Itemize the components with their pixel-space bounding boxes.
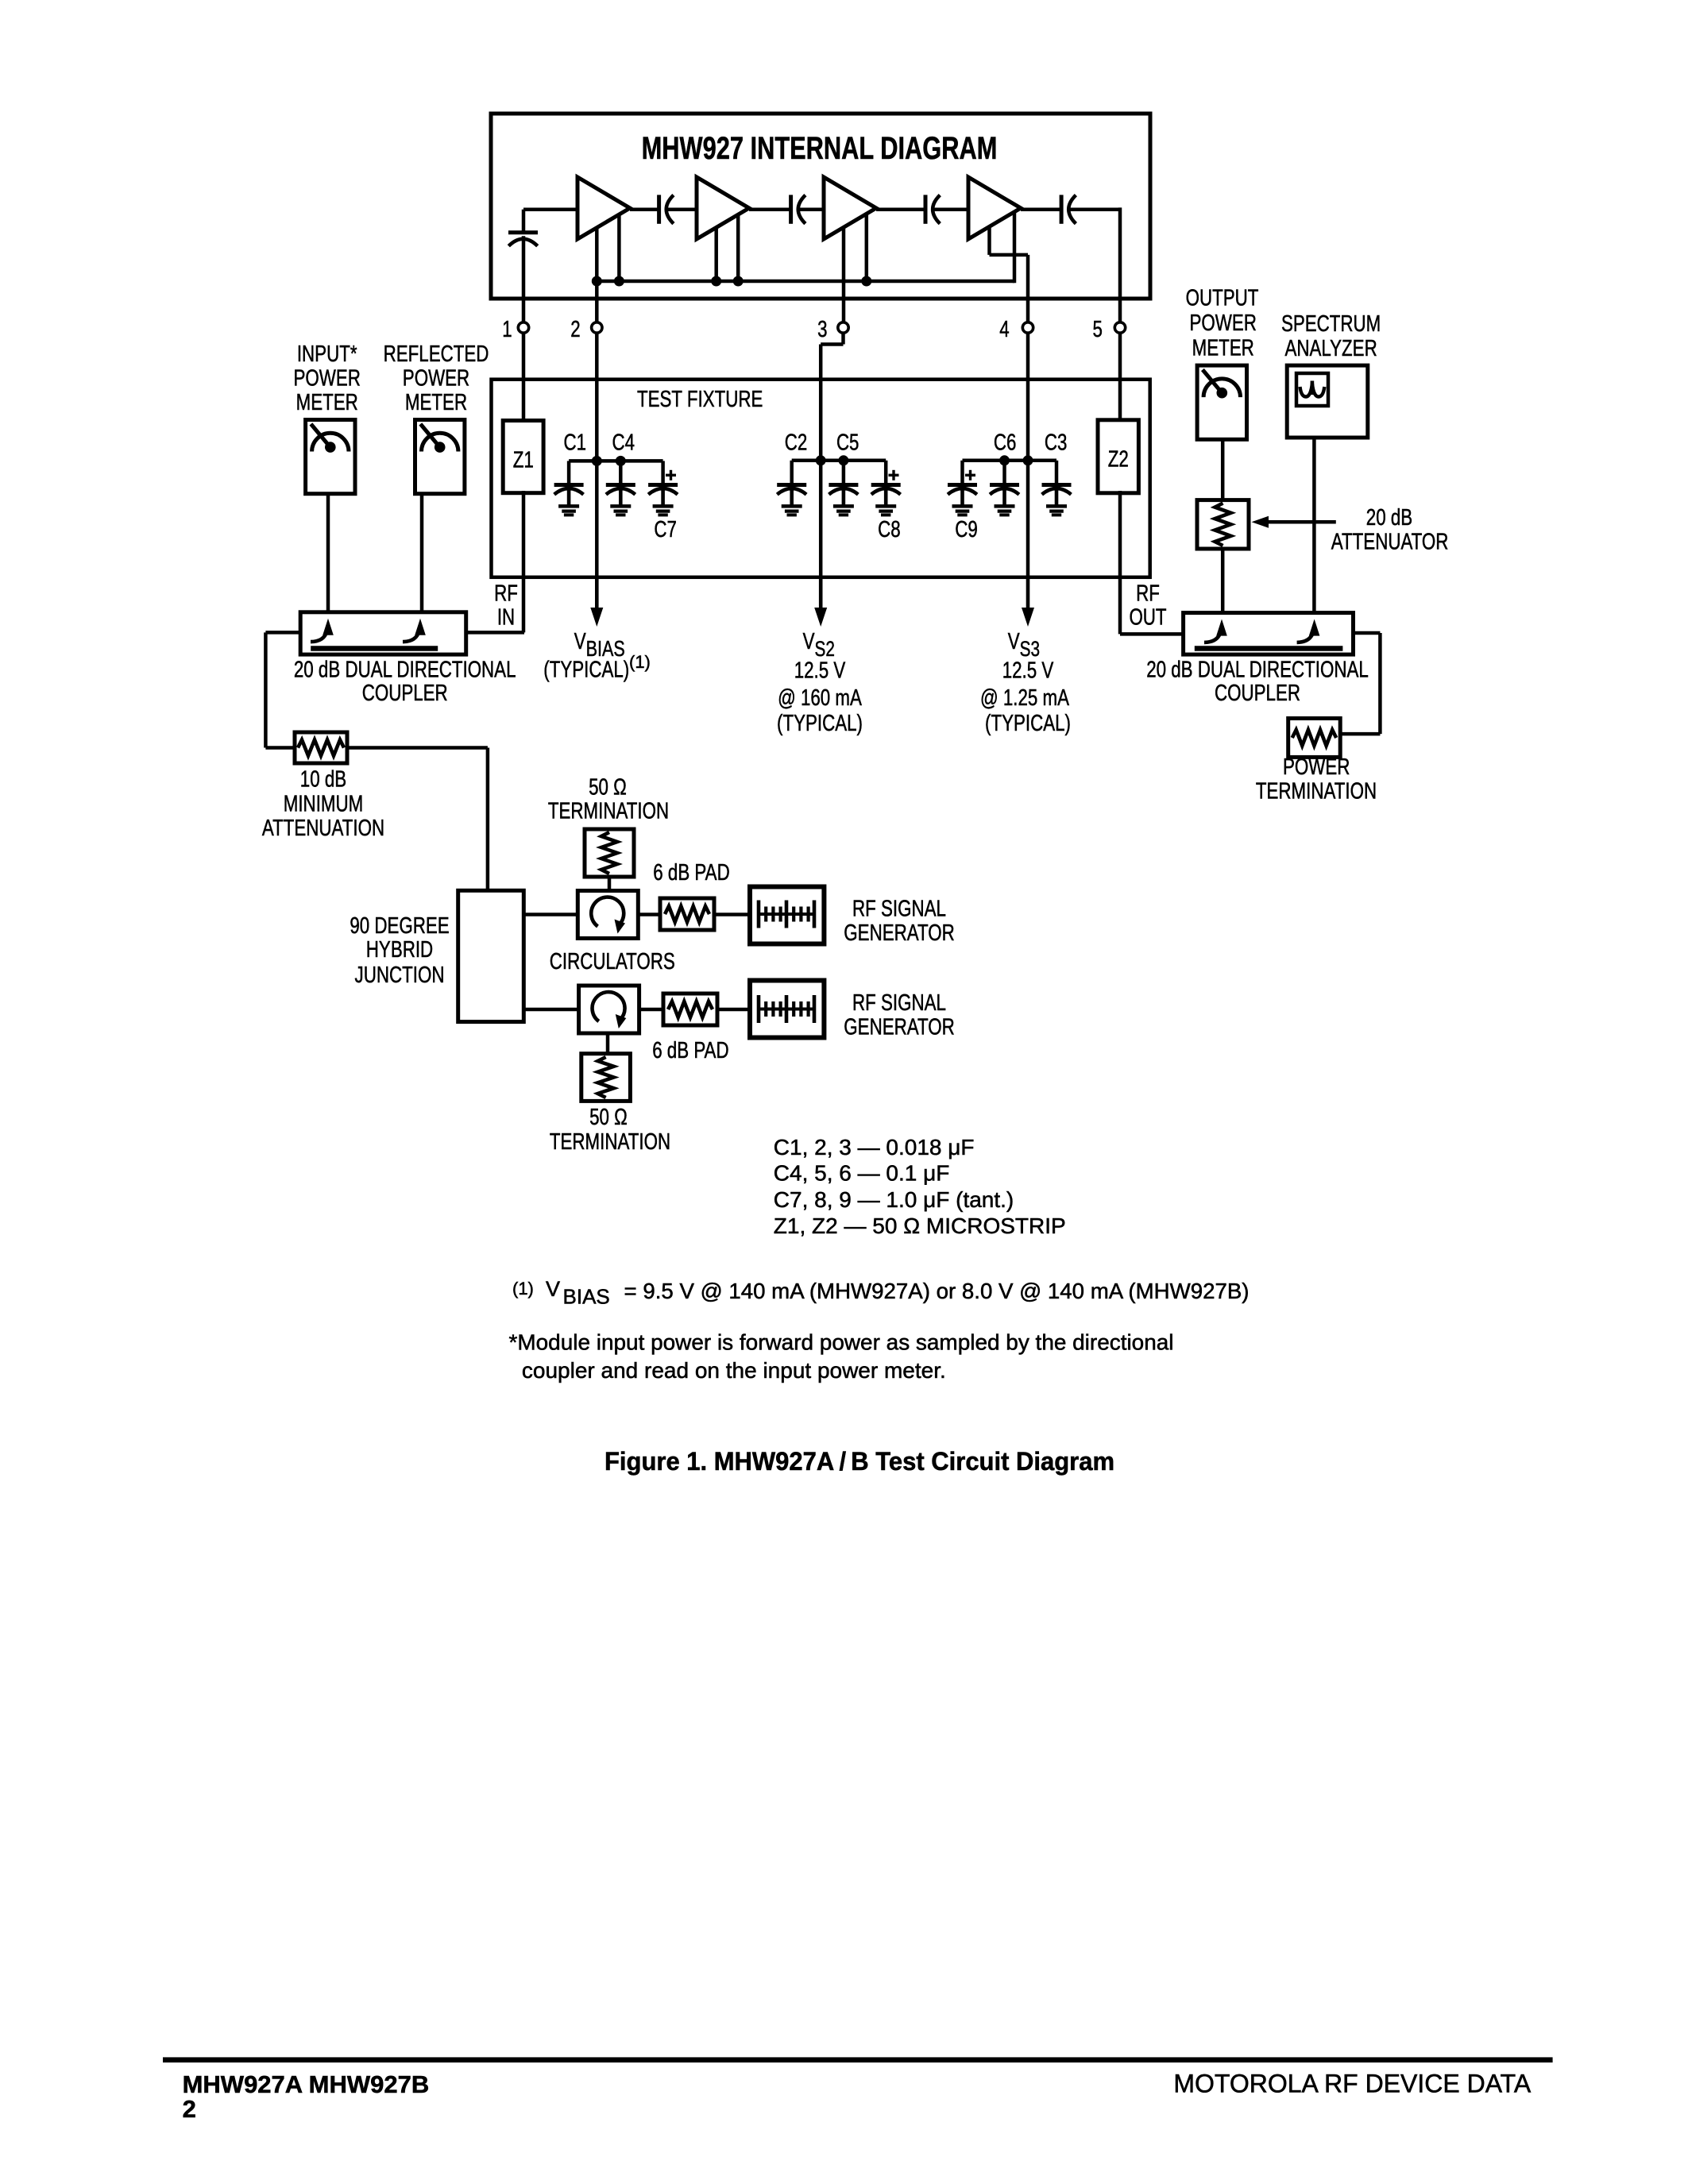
wire coupler to power termination <box>1354 631 1381 635</box>
svg-text:GENERATOR: GENERATOR <box>844 920 954 946</box>
ground for C5 <box>833 504 854 508</box>
svg-text:C4, 5, 6 — 0.1 μF: C4, 5, 6 — 0.1 μF <box>774 1161 950 1186</box>
wire output cap to pin 5 corner <box>1069 207 1120 211</box>
svg-text:4: 4 <box>999 317 1009 342</box>
reflected power meter needle icon <box>422 433 458 451</box>
svg-text:C5: C5 <box>836 430 859 456</box>
coupler pickup arrow 1 <box>323 619 334 635</box>
amplifier stage A1 <box>577 177 630 239</box>
svg-text:TEST FIXTURE: TEST FIXTURE <box>637 387 763 412</box>
wire attenuator to coupler <box>1221 549 1225 613</box>
wire to A4 <box>933 207 968 211</box>
wire rail 2 (pin3 group) <box>792 459 886 463</box>
wire A1 second leg <box>617 214 621 281</box>
wire A4 out <box>1021 207 1061 211</box>
wire pin2 to Vbias <box>595 333 599 461</box>
wire attenuator to hybrid <box>347 746 488 750</box>
svg-text:3: 3 <box>817 317 827 342</box>
coupler pickup arrow 2 <box>415 619 426 635</box>
svg-text:MHW927 INTERNAL DIAGRAM: MHW927 INTERNAL DIAGRAM <box>642 131 998 166</box>
ground for C7 <box>653 504 674 508</box>
svg-text:COUPLER: COUPLER <box>362 681 448 706</box>
test fixture box <box>492 380 1150 577</box>
svg-text:C8: C8 <box>878 517 901 542</box>
svg-text:12.5 V: 12.5 V <box>1002 658 1054 684</box>
resistor zigzag 10dB <box>298 740 344 756</box>
svg-text:Z1, Z2 — 50 Ω MICROSTRIP: Z1, Z2 — 50 Ω MICROSTRIP <box>774 1214 1066 1238</box>
resistor zigzag pad2 <box>668 1001 713 1017</box>
50 ohm termination resistor (bottom) <box>581 1054 631 1102</box>
wire pin4 through fixture <box>1026 461 1030 577</box>
input power meter box <box>306 420 355 494</box>
resistor zigzag term1 <box>601 832 617 874</box>
wire pin1 stem <box>522 236 526 322</box>
resistor zigzag pterm <box>1292 730 1337 746</box>
10 dB minimum attenuation resistor <box>295 732 347 763</box>
svg-text:coupler and read on the input: coupler and read on the input power mete… <box>522 1358 946 1383</box>
svg-text:IN: IN <box>497 605 515 631</box>
svg-text:ATTENUATOR: ATTENUATOR <box>1331 530 1449 555</box>
ground for C2 <box>782 504 802 508</box>
coupler mainline <box>311 646 438 651</box>
svg-text:C7, 8, 9 — 1.0 μF (tant.): C7, 8, 9 — 1.0 μF (tant.) <box>774 1187 1014 1212</box>
svg-text:S2: S2 <box>815 637 835 661</box>
capacitor C5 <box>829 483 858 487</box>
ground for C1 <box>558 504 579 508</box>
svg-text:RF SIGNAL: RF SIGNAL <box>852 897 946 922</box>
svg-text:C4: C4 <box>612 430 635 456</box>
svg-text:6 dB PAD: 6 dB PAD <box>652 1038 728 1063</box>
wire A1 bias leg <box>595 228 599 281</box>
svg-text:C7: C7 <box>654 517 677 542</box>
capacitor C1 <box>554 483 584 487</box>
svg-text:MINIMUM: MINIMUM <box>284 791 364 816</box>
output coupler mainline <box>1195 646 1343 651</box>
svg-text:50 Ω: 50 Ω <box>589 774 627 800</box>
capacitor C2 <box>777 483 806 487</box>
svg-text:METER: METER <box>405 390 467 415</box>
wire to A2 <box>667 207 697 211</box>
svg-text:TERMINATION: TERMINATION <box>550 1129 670 1155</box>
svg-text:2: 2 <box>570 317 580 342</box>
svg-text:(1): (1) <box>629 652 651 672</box>
output power meter needle icon <box>1203 379 1240 397</box>
wire circulator 2 to termination 2 <box>606 1033 610 1054</box>
wire hybrid to circulator 2 <box>523 1008 578 1012</box>
20 dB dual directional coupler (output) <box>1184 613 1354 655</box>
pin 1 <box>518 322 528 333</box>
wire A3 out <box>876 207 925 211</box>
svg-text:Z1: Z1 <box>513 448 534 473</box>
svg-text:TERMINATION: TERMINATION <box>1256 778 1377 804</box>
wire coupler to RF IN <box>466 631 524 635</box>
wire pin2 drop <box>595 281 599 322</box>
pin 3 <box>838 322 848 333</box>
svg-text:20 dB DUAL DIRECTIONAL: 20 dB DUAL DIRECTIONAL <box>294 658 516 683</box>
microstrip Z1 <box>503 421 543 493</box>
svg-text:HYBRID: HYBRID <box>366 937 433 963</box>
wire input meter to coupler <box>326 494 330 612</box>
wire pin5 to Z2 <box>1118 333 1122 421</box>
svg-text:V: V <box>803 629 815 654</box>
power termination resistor <box>1288 719 1341 758</box>
svg-text:2: 2 <box>183 2095 196 2123</box>
wire pad1 to generator 1 <box>714 913 750 916</box>
footer rule <box>163 2057 1553 2062</box>
svg-text:C1: C1 <box>564 430 587 456</box>
svg-text:S3: S3 <box>1020 637 1040 661</box>
output coupler pickup arrow 1 <box>1216 619 1227 636</box>
svg-text:OUT: OUT <box>1129 605 1166 631</box>
svg-text:COUPLER: COUPLER <box>1215 681 1300 706</box>
50 ohm termination resistor (top) <box>585 829 634 877</box>
wire pad2 to generator 2 <box>717 1008 750 1012</box>
ground for C3 <box>1046 504 1067 508</box>
capacitor C6 <box>990 483 1019 487</box>
ground for C6 <box>995 504 1015 508</box>
wire RF OUT to coupler <box>1118 491 1122 634</box>
coupling capacitor CC <box>924 195 928 223</box>
wire OPM to attenuator <box>1221 438 1225 500</box>
wire pin5 drop <box>1118 207 1122 322</box>
wire circulator1 to pad1 <box>638 913 660 916</box>
wire input line pin1 to A1 <box>523 207 577 211</box>
svg-text:V: V <box>546 1277 560 1301</box>
input power meter needle icon <box>312 433 349 451</box>
svg-text:CIRCULATORS: CIRCULATORS <box>550 949 675 974</box>
wire A4 leg step <box>987 226 991 255</box>
plus sign C7 <box>666 474 676 477</box>
svg-text:@ 160 mA: @ 160 mA <box>778 685 862 711</box>
svg-text:GENERATOR: GENERATOR <box>844 1015 954 1040</box>
wire coupler left to attenuator <box>265 631 300 635</box>
wire A3 leg2 <box>865 214 869 281</box>
svg-text:INPUT*: INPUT* <box>297 341 357 367</box>
capacitor C9 <box>948 483 977 487</box>
svg-text:90 DEGREE: 90 DEGREE <box>350 913 449 939</box>
svg-text:REFLECTED: REFLECTED <box>384 341 489 367</box>
svg-text:MHW927A MHW927B: MHW927A MHW927B <box>183 2070 430 2098</box>
coupling capacitor CB <box>789 195 793 223</box>
capacitor C8 <box>871 483 901 487</box>
resistor zigzag term2 <box>598 1057 614 1098</box>
Vbias arrow <box>595 577 599 609</box>
svg-text:C3: C3 <box>1045 430 1068 456</box>
wire circulator2 to pad2 <box>639 1008 663 1012</box>
input capacitor (pin 1 shunt) <box>522 210 526 233</box>
svg-text:1: 1 <box>502 317 512 342</box>
svg-text:TERMINATION: TERMINATION <box>548 799 669 824</box>
circulator 1 <box>577 891 638 939</box>
wire to A3 <box>799 207 825 211</box>
microstrip Z2 <box>1098 420 1138 493</box>
wire rail 3 (pin4 group) <box>963 459 1057 463</box>
svg-text:C6: C6 <box>994 430 1017 456</box>
svg-text:POWER: POWER <box>294 366 361 392</box>
amplifier stage A2 <box>697 177 749 239</box>
svg-text:= 9.5 V @ 140 mA (MHW927A) or: = 9.5 V @ 140 mA (MHW927A) or 8.0 V @ 14… <box>624 1279 1250 1303</box>
amplifier stage A3 <box>824 177 876 239</box>
svg-text:5: 5 <box>1093 317 1103 342</box>
VS3 arrow <box>1026 577 1030 609</box>
svg-text:C1, 2, 3 — 0.018 μF: C1, 2, 3 — 0.018 μF <box>774 1135 975 1160</box>
circulator 2 <box>579 986 639 1033</box>
svg-text:C9: C9 <box>955 517 978 542</box>
VS2 arrow <box>819 577 823 609</box>
svg-text:POWER: POWER <box>1283 754 1350 780</box>
wire pin2 through fixture <box>595 461 599 577</box>
20 dB dual directional coupler (input) <box>300 612 466 654</box>
attenuator pointer arrow <box>1266 520 1336 524</box>
wire termination to circulator 1 <box>608 877 612 891</box>
plus sign C8 <box>889 474 899 477</box>
capacitor C7 <box>648 483 678 487</box>
20 dB attenuator box <box>1197 500 1249 549</box>
svg-text:RF: RF <box>494 581 518 607</box>
svg-text:(TYPICAL): (TYPICAL) <box>543 658 629 683</box>
coupling capacitor CA <box>657 195 661 223</box>
wire internal bias bus <box>597 280 1014 284</box>
output coupler pickup arrow 2 <box>1309 619 1320 636</box>
svg-text:Z2: Z2 <box>1108 447 1129 473</box>
wire pin1 to Z1 <box>522 333 526 422</box>
RF signal generator 2 <box>750 981 824 1038</box>
wire A4 output leg to bus <box>1013 212 1017 284</box>
svg-text:METER: METER <box>296 390 358 415</box>
wire A2 leg2 <box>736 214 740 281</box>
svg-text:12.5 V: 12.5 V <box>794 658 846 684</box>
ground for C9 <box>952 504 973 508</box>
svg-text:POWER: POWER <box>403 366 469 392</box>
svg-text:C2: C2 <box>785 430 808 456</box>
output power meter box <box>1197 365 1246 439</box>
MHW927 internal diagram box <box>491 114 1150 299</box>
svg-text:V: V <box>1008 629 1020 654</box>
svg-text:@ 1.25 mA: @ 1.25 mA <box>980 685 1070 711</box>
wire A2 out <box>749 207 791 211</box>
wire pin4 drop <box>1026 255 1030 322</box>
svg-text:RF: RF <box>1136 581 1160 607</box>
svg-text:20 dB: 20 dB <box>1366 505 1412 531</box>
svg-text:ANALYZER: ANALYZER <box>1285 336 1377 361</box>
svg-text:JUNCTION: JUNCTION <box>355 963 445 988</box>
svg-text:6 dB PAD: 6 dB PAD <box>653 860 729 886</box>
coupling capacitor CD <box>1060 195 1064 223</box>
pin 5 <box>1114 322 1125 333</box>
wire reflected meter to coupler <box>420 494 424 612</box>
svg-text:MOTOROLA RF DEVICE DATA: MOTOROLA RF DEVICE DATA <box>1173 2070 1532 2098</box>
svg-text:*Module input power is forward: *Module input power is forward power as … <box>509 1330 1174 1355</box>
amplifier stage A4 <box>968 177 1021 239</box>
pin 2 <box>592 322 602 333</box>
resistor zigzag pad1 <box>665 906 709 922</box>
90 degree hybrid junction box <box>458 890 524 1021</box>
capacitor C4 <box>606 483 635 487</box>
wire rail 1 (pin2 group) <box>569 459 663 463</box>
spectrum analyzer box <box>1287 365 1368 438</box>
svg-text:(1): (1) <box>512 1279 534 1298</box>
RF signal generator 1 <box>750 887 824 944</box>
junction dots on bus <box>592 276 602 287</box>
spectrum analyzer icon <box>1296 373 1328 406</box>
svg-text:RF SIGNAL: RF SIGNAL <box>852 990 946 1016</box>
wire hybrid to circulator 1 <box>523 913 577 916</box>
svg-text:V: V <box>574 629 586 654</box>
6 dB pad 1 <box>660 898 714 930</box>
svg-text:ATTENUATION: ATTENUATION <box>262 816 384 841</box>
wire pin3 through fixture <box>819 461 823 577</box>
wire SA down to coupler <box>1312 438 1316 613</box>
svg-text:(TYPICAL): (TYPICAL) <box>777 711 863 736</box>
svg-text:POWER: POWER <box>1190 311 1257 336</box>
wire A2 leg1 <box>714 227 718 281</box>
resistor zigzag att20 <box>1215 504 1231 546</box>
6 dB pad 2 <box>663 994 717 1025</box>
svg-text:50 Ω: 50 Ω <box>589 1105 628 1130</box>
plus sign C9 <box>965 474 975 477</box>
svg-text:OUTPUT: OUTPUT <box>1186 285 1259 311</box>
wire pin3 jog <box>841 333 845 344</box>
svg-text:SPECTRUM: SPECTRUM <box>1281 311 1381 337</box>
wire pin4 down <box>1026 333 1030 461</box>
reflected power meter box <box>415 420 465 494</box>
svg-text:Figure 1. MHW927A / B Test Cir: Figure 1. MHW927A / B Test Circuit Diagr… <box>605 1447 1114 1476</box>
ground for C4 <box>610 504 631 508</box>
wire A1 out <box>630 207 659 211</box>
ground for C8 <box>875 504 896 508</box>
capacitor C3 <box>1042 483 1072 487</box>
wire A3 leg to pin 3 <box>842 227 846 322</box>
svg-text:BIAS: BIAS <box>563 1285 610 1309</box>
svg-text:METER: METER <box>1192 335 1254 361</box>
pin 4 <box>1022 322 1033 333</box>
svg-text:(TYPICAL): (TYPICAL) <box>985 711 1071 736</box>
svg-text:10 dB: 10 dB <box>300 767 346 793</box>
svg-text:20 dB DUAL DIRECTIONAL: 20 dB DUAL DIRECTIONAL <box>1146 657 1369 682</box>
